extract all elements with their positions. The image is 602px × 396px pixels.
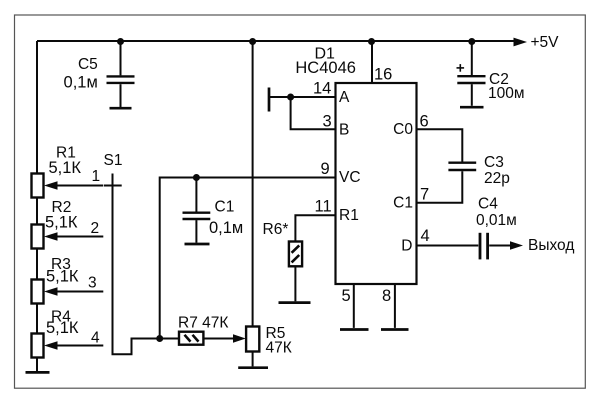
svg-text:0,1м: 0,1м: [209, 219, 243, 237]
svg-text:A: A: [339, 89, 350, 106]
svg-text:3: 3: [323, 113, 332, 131]
svg-text:R7 47К: R7 47К: [178, 315, 228, 332]
svg-text:5,1К: 5,1К: [45, 214, 78, 232]
svg-text:5,1К: 5,1К: [46, 268, 79, 286]
svg-text:100м: 100м: [488, 85, 525, 102]
svg-text:0,01м: 0,01м: [476, 212, 517, 229]
svg-text:11: 11: [315, 198, 332, 216]
svg-text:5,1К: 5,1К: [46, 319, 79, 337]
svg-text:B: B: [339, 121, 349, 138]
svg-text:7: 7: [420, 186, 429, 204]
svg-text:4: 4: [91, 330, 100, 347]
svg-text:S1: S1: [104, 152, 123, 169]
svg-text:8: 8: [382, 287, 391, 305]
svg-text:HC4046: HC4046: [295, 59, 356, 77]
svg-text:3: 3: [88, 275, 97, 292]
svg-text:R6*: R6*: [263, 221, 289, 238]
svg-text:C0: C0: [393, 121, 413, 138]
svg-text:D: D: [401, 237, 412, 254]
svg-text:C3: C3: [484, 154, 504, 171]
svg-text:1: 1: [92, 168, 101, 185]
svg-text:16: 16: [374, 66, 392, 84]
svg-text:14: 14: [313, 80, 331, 98]
svg-text:6: 6: [420, 113, 429, 131]
svg-text:9: 9: [321, 160, 330, 178]
svg-text:+5V: +5V: [531, 34, 560, 51]
svg-text:2: 2: [91, 220, 100, 237]
svg-text:C4: C4: [478, 196, 498, 213]
svg-text:C5: C5: [78, 56, 98, 73]
svg-text:C1: C1: [393, 195, 413, 212]
svg-text:5: 5: [342, 287, 351, 305]
svg-text:22p: 22p: [484, 170, 510, 187]
svg-text:VC: VC: [339, 169, 361, 186]
svg-text:R1: R1: [339, 207, 359, 224]
svg-text:C1: C1: [215, 199, 235, 216]
svg-text:0,1м: 0,1м: [64, 74, 98, 92]
svg-text:4: 4: [421, 227, 430, 245]
svg-text:Выход: Выход: [528, 237, 574, 254]
svg-text:47К: 47К: [266, 340, 292, 357]
svg-text:5,1К: 5,1К: [49, 159, 82, 177]
